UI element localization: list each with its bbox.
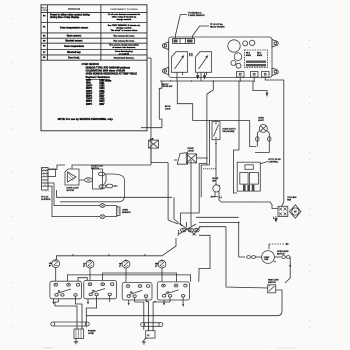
label spark module <box>67 187 80 192</box>
medium circle C <box>234 53 242 61</box>
connector on right leg <box>268 137 271 142</box>
svg-text:BAKE: BAKE <box>246 54 252 57</box>
wire: power col 2 <box>76 302 83 329</box>
wire: door sw stub right <box>218 192 220 198</box>
tick label A2 <box>108 254 110 256</box>
fault code table grid <box>41 5 147 60</box>
svg-text:The sensor, the oven.: The sensor, the oven. <box>113 40 135 43</box>
wire: E3 drop <box>125 268 127 282</box>
svg-text:M: M <box>294 210 296 214</box>
node dot on bus 2 <box>191 80 193 82</box>
svg-text:The sensor, the oven.: The sensor, the oven. <box>113 34 135 37</box>
wire: connector fanout low1 <box>48 183 100 206</box>
oven sensor notes lines <box>86 67 138 76</box>
connector oval with X <box>85 178 93 182</box>
wire: right power col 3 <box>153 302 170 330</box>
wire: drop to sw4 <box>198 275 200 282</box>
label power cord <box>88 331 96 336</box>
connector oval sensor1 <box>100 204 105 208</box>
wire: long verticals into nexus from sw area <box>0 0 1 1</box>
label cooling fan <box>287 197 297 202</box>
svg-text:The sensor, check connection: The sensor, check connection <box>109 44 139 47</box>
svg-text:OVEN SENSOR RESISTANCE AT TEMP: OVEN SENSOR RESISTANCE AT TEMP TABLE <box>86 73 138 76</box>
svg-text:NOTE: For use by SERVICE PERSO: NOTE: For use by SERVICE PERSONNEL only. <box>58 118 114 121</box>
wire: nexus out right 2 <box>0 0 1 1</box>
door latch switch (clean) S3 <box>212 122 220 140</box>
node dots under switches <box>146 301 156 303</box>
tick label A3 <box>144 254 146 256</box>
wire: board lower bus <box>160 80 253 82</box>
svg-text:Oven temperature: Oven temperature <box>64 45 85 48</box>
wire: latch top feed <box>215 120 217 121</box>
small circle B <box>250 40 255 45</box>
dashed arrow above fan <box>269 243 290 249</box>
svg-text:PROBLEM: PROBLEM <box>68 8 80 11</box>
board bottom terminal tabs <box>237 72 270 78</box>
board edge connector P1 <box>173 39 195 44</box>
table row F3 <box>43 40 135 43</box>
wire: bus into box4 bend <box>0 0 1 1</box>
door latch assembly (clean) <box>174 148 207 164</box>
svg-text:P3: P3 <box>130 292 132 294</box>
svg-text:SW (CLEAN): SW (CLEAN) <box>223 130 235 133</box>
node dot door sw <box>211 196 213 198</box>
svg-text:LOCK: LOCK <box>165 108 171 110</box>
wire: nexus out right 1 <box>0 0 1 1</box>
svg-text:P2: P2 <box>92 291 94 293</box>
svg-text:FAULT: FAULT <box>41 7 48 10</box>
label BK <box>162 84 172 88</box>
infinite switch SW3 <box>122 282 152 300</box>
wire: left zigzag from bus <box>159 81 162 128</box>
wire: rightmost tab long drop to cooling fan <box>265 77 284 206</box>
svg-text:RELAY BOARD: RELAY BOARD <box>210 25 225 28</box>
ground G1 <box>74 338 78 344</box>
board mounting ear right bottom <box>272 68 278 76</box>
svg-text:SW: SW <box>212 181 215 183</box>
oven sensor RT1 <box>117 207 120 215</box>
svg-text:6": 6" <box>83 266 85 268</box>
oven light labels <box>258 118 265 123</box>
infinite switch SW2 <box>84 281 117 299</box>
svg-text:Degrees F Resistance: Degrees F Resistance <box>86 76 111 79</box>
label above motor <box>91 166 104 171</box>
svg-text:2047: 2047 <box>99 92 105 95</box>
wire: right power col 2 <box>146 302 149 331</box>
wire: nexus left input <box>0 0 1 1</box>
arrow on right vertical <box>289 265 291 268</box>
table row F9 <box>43 56 135 59</box>
wire: pc right drops <box>148 326 150 330</box>
svg-text:CONTROL: CONTROL <box>268 162 279 164</box>
page edge dotted bottom right <box>277 347 297 349</box>
wire: board tab stubs to bus <box>239 77 255 82</box>
node dot latch <box>215 143 217 145</box>
svg-text:MOTOR: MOTOR <box>67 190 75 192</box>
svg-text:Shorted key.: Shorted key. <box>67 51 81 54</box>
resistance table header <box>86 76 111 79</box>
fault code table outer box <box>41 5 147 131</box>
label: relay board (leader) <box>193 23 226 39</box>
fan right connectors <box>282 256 290 259</box>
jumper pins between relays <box>189 53 193 56</box>
svg-text:Oven temperature sensor: Oven temperature sensor <box>60 26 88 29</box>
wire: latch loop right <box>250 120 257 146</box>
wire: fan right to down <box>274 256 281 258</box>
svg-text:900*F: 900*F <box>86 104 93 106</box>
surface element E1 <box>49 259 60 267</box>
wire: fan feed from left <box>219 197 278 208</box>
label: twisted pair sensor (leader) <box>176 11 206 38</box>
sw4 bottom stubs <box>163 297 184 307</box>
wire: module top wire <box>72 165 151 169</box>
wire: stairs from bus to mid right <box>177 81 249 120</box>
wire: sensor wires to fuse <box>105 206 118 208</box>
wire: fan block drop <box>273 217 275 219</box>
wire: fuse column left <box>141 127 162 129</box>
wire: sw1 to power col <box>55 302 77 329</box>
door lock switch box S4 <box>93 169 106 189</box>
label AT TO JX ON CONTROL <box>268 158 281 164</box>
wire: connector fanout mid <box>57 190 172 197</box>
table row F4 <box>43 44 140 50</box>
svg-text:CONTROL: CONTROL <box>41 199 52 201</box>
svg-text:SENSOR: SENSOR <box>122 212 131 214</box>
wire: module to switch <box>79 179 84 181</box>
wire: nexus to sw4 right <box>0 0 1 1</box>
svg-text:charge control.: charge control. <box>116 18 131 21</box>
svg-text:BROIL: BROIL <box>257 55 262 57</box>
svg-text:FAN: FAN <box>287 199 291 202</box>
svg-text:Open sensor.: Open sensor. <box>67 35 82 37</box>
wire: relay K2 drop to bus <box>197 73 206 81</box>
label oven sensor <box>122 209 131 214</box>
wire: oven light left leg <box>257 131 260 147</box>
wire: to vent fan <box>0 0 1 1</box>
table header text <box>41 7 138 13</box>
wire: E1 drop to switch <box>55 268 57 282</box>
resistance list <box>86 80 112 105</box>
wire: inter-switch bus 2 <box>78 278 87 282</box>
wire: cutout left <box>0 0 1 1</box>
wire: cutout right to bus <box>86 290 282 316</box>
svg-text:DOOR SW: DOOR SW <box>162 86 172 88</box>
wire: connector fanout top <box>48 165 65 170</box>
svg-text:SENSOR TYPE: RTD 1000OHM plati: SENSOR TYPE: RTD 1000OHM platinum <box>86 67 130 70</box>
small circle E <box>236 63 241 68</box>
sw3 bottom stubs <box>128 298 146 306</box>
svg-text:1453: 1453 <box>99 85 105 88</box>
svg-text:CODE: CODE <box>41 10 47 12</box>
node dot on bus 1 <box>170 80 172 82</box>
sw1 bottom stubs <box>52 296 75 304</box>
wire: door sw hatched feed <box>203 168 217 170</box>
infinite switch SW4 <box>157 282 189 300</box>
svg-text:OVEN SENSOR: OVEN SENSOR <box>82 63 100 66</box>
svg-text:SWITCH: SWITCH <box>268 282 276 284</box>
wire: long vertical from fuse <box>0 0 1 1</box>
door lock loop wire <box>60 174 125 202</box>
page edge dots right <box>309 5 311 345</box>
svg-text:LATCH: LATCH <box>188 149 195 152</box>
wire: loop around right top <box>211 196 218 198</box>
wire: power col 3 <box>86 302 96 327</box>
svg-text:during time of day display.: during time of day display. <box>50 16 80 19</box>
svg-text:or control.: or control. <box>119 53 130 56</box>
svg-text:COMPONENTS TO CHECK: COMPONENTS TO CHECK <box>110 9 138 11</box>
svg-text:2 WIRE SENSOR: 2 WIRE SENSOR <box>188 15 205 17</box>
vent fan connectors <box>247 256 256 259</box>
oven receptacle box J4 <box>237 162 260 191</box>
svg-text:450*F: 450*F <box>86 90 93 93</box>
label TP JX control <box>41 197 52 202</box>
wire: inter-switch bus 3 <box>103 273 177 282</box>
relay K1 <box>172 52 188 75</box>
power cord block left <box>74 329 84 338</box>
label high limit <box>268 279 279 284</box>
wire: nexus feeds from top <box>181 213 200 224</box>
svg-text:Check latch harness.: Check latch harness. <box>114 56 135 59</box>
thermal fuse TF1 <box>149 138 159 149</box>
board mounting ear left bottom <box>162 67 168 75</box>
wire: mid vertical pair B <box>199 164 207 214</box>
table row F2 <box>43 34 135 37</box>
svg-text:CORD: CORD <box>88 333 94 335</box>
wire: E2 drop <box>89 268 91 281</box>
wire: inter-switch bus 1 <box>0 0 1 1</box>
svg-text:2614: 2614 <box>99 100 105 103</box>
sw2 bottom stubs <box>87 296 110 305</box>
transformer winding T1 (large circle) <box>228 40 240 52</box>
wire: latch bottom drop <box>215 140 217 169</box>
surface element E2 <box>83 260 94 268</box>
svg-text:FAN: FAN <box>264 258 268 261</box>
wire: right vertical down <box>285 257 290 283</box>
surface element E4 <box>155 260 166 268</box>
door switch S5 <box>213 185 220 192</box>
svg-text:P4: P4 <box>167 292 169 294</box>
label oven vent motor <box>277 251 289 256</box>
inner loop connector <box>106 184 117 188</box>
wire: nexus out right 3 <box>199 235 210 275</box>
oven sensor notes title <box>82 63 100 66</box>
svg-text:MOTOR: MOTOR <box>277 254 285 256</box>
wire: connector fanout low2 <box>48 186 100 217</box>
wire: k2 tab drop <box>207 81 213 104</box>
terminal bar TB2 (right) <box>141 323 163 327</box>
wire: element bus <box>56 238 176 260</box>
surface element E3 <box>119 260 130 268</box>
node dot mid <box>206 157 208 159</box>
wire: feed box column <box>233 81 239 193</box>
ground G2 <box>142 338 148 344</box>
svg-text:8": 8" <box>155 266 157 268</box>
label BK/W <box>165 106 171 110</box>
svg-text:6": 6" <box>119 266 121 268</box>
tick label A1 <box>72 254 74 256</box>
page edge dots left <box>11 18 53 348</box>
wire: relay K1 drop to bus <box>176 75 178 81</box>
oven vent fan M2 <box>262 251 275 264</box>
thermal cutout S6 <box>268 285 276 293</box>
nexus connector oval 2 <box>188 228 193 232</box>
wire: conn to fan <box>256 256 262 258</box>
svg-text:8": 8" <box>49 266 51 268</box>
nexus crossing wires <box>178 222 200 236</box>
table row F0 <box>43 13 141 21</box>
wire: right power col 1 <box>135 302 144 330</box>
svg-text:2697: 2697 <box>99 104 105 106</box>
svg-text:Door lock.: Door lock. <box>68 57 80 59</box>
wire: right bus segment <box>0 0 1 1</box>
paper noise overlay <box>0 0 1 1</box>
svg-text:1654: 1654 <box>99 87 105 90</box>
control board U1 outline <box>169 37 272 78</box>
wire: mid double vertical a <box>206 104 208 165</box>
spark module A1 <box>65 169 79 185</box>
wire: table edge stub to long vertical <box>147 57 151 59</box>
wire: long vertical left feeder <box>150 58 152 165</box>
node dot on bus 3 <box>213 80 215 82</box>
label L1 stub <box>220 197 223 199</box>
board mounting ear left top <box>162 42 168 50</box>
svg-text:2429: 2429 <box>99 98 105 101</box>
wire: E4 drop <box>161 268 163 282</box>
wire: loop inner vertical <box>105 174 107 184</box>
connector on left leg <box>256 137 259 142</box>
table row F7 <box>43 50 134 56</box>
svg-text:CALIBRATION: 1084 ohms +/-10.9: CALIBRATION: 1084 ohms +/-10.9% <box>86 70 126 73</box>
small circle A <box>243 41 248 46</box>
wire: bus corner to free arrow <box>253 81 268 97</box>
power block right <box>146 331 155 338</box>
nexus connector oval 1 <box>181 228 186 232</box>
cooling fan motor M1 <box>289 205 300 218</box>
svg-text:LIGHT: LIGHT <box>258 120 265 122</box>
connector block J3 (TP & JX) <box>42 168 56 192</box>
wire: door sw bottom <box>0 0 1 1</box>
svg-text:P1: P1 <box>58 291 60 293</box>
leader to receptacle <box>260 162 268 164</box>
wire: oven light right leg <box>255 131 269 153</box>
wire: mid double vertical b <box>208 120 210 165</box>
relay header block J2 <box>244 50 267 67</box>
node dot fan right <box>274 261 276 263</box>
connector oval sensor2 <box>100 215 105 219</box>
relay K2 <box>196 52 212 75</box>
svg-text:of sensor wire harness.: of sensor wire harness. <box>112 46 136 49</box>
svg-text:"No clock" or sensor wires.: "No clock" or sensor wires. <box>110 29 138 32</box>
label door switch <box>212 178 219 183</box>
cooling fan terminal block <box>278 206 288 216</box>
label door latch <box>223 128 237 134</box>
table row F1 <box>43 25 141 32</box>
wire: vertical 174 <box>174 197 182 226</box>
nexus connector oval 3 <box>194 228 199 232</box>
service note <box>58 118 114 121</box>
svg-text:Shorted sensor.: Shorted sensor. <box>65 40 83 43</box>
arrow below fan <box>275 216 277 222</box>
infinite switch SW1 <box>50 281 82 299</box>
terminal bar TB1 (left) <box>51 322 89 326</box>
board mounting ear right top <box>272 40 278 48</box>
small circle D <box>231 60 236 65</box>
oven light LP1 <box>259 124 267 132</box>
wire: pc left drop <box>76 326 78 329</box>
